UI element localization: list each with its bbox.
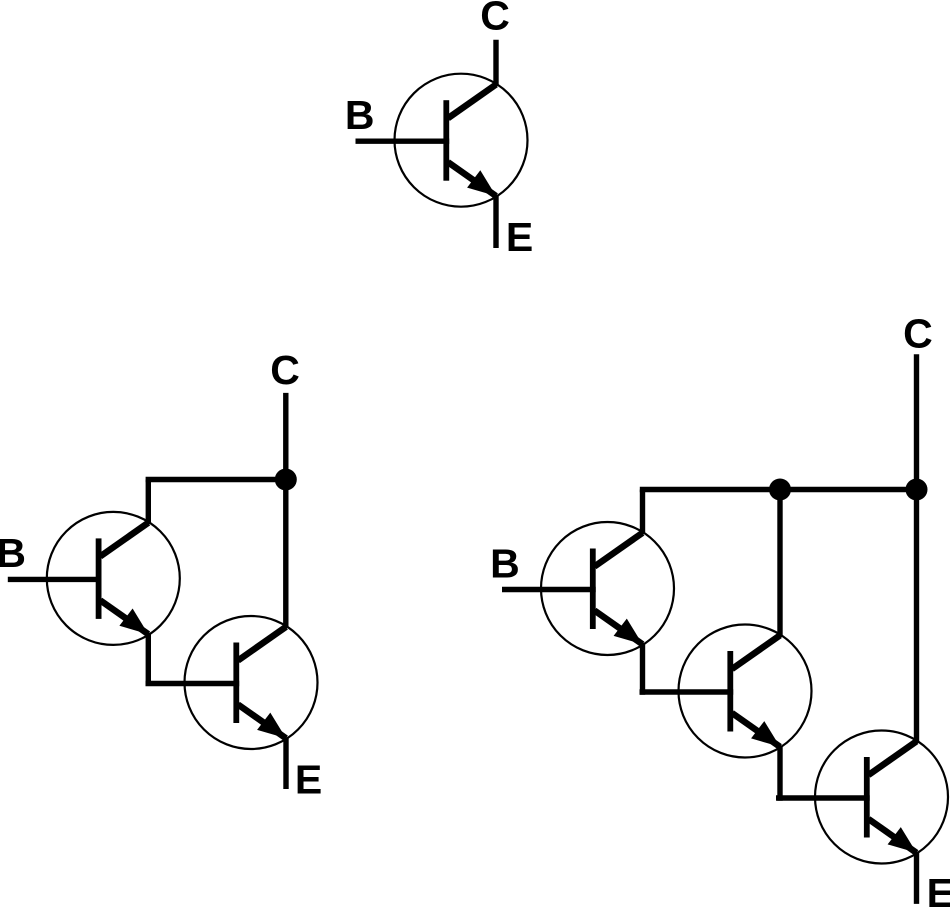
junction dot triple collector node right bbox=[906, 479, 928, 501]
svg-text:E: E bbox=[295, 756, 322, 802]
svg-text:C: C bbox=[270, 347, 300, 393]
wire triple collector lead from C bbox=[914, 354, 919, 489]
svg-text:C: C bbox=[903, 311, 933, 357]
transistor Q1 (single NPN) bbox=[356, 74, 528, 207]
svg-text:B: B bbox=[0, 530, 26, 576]
transistor Q5 (triple Darlington, middle) bbox=[640, 625, 812, 758]
svg-text:E: E bbox=[927, 870, 950, 907]
svg-text:E: E bbox=[506, 214, 533, 260]
svg-text:C: C bbox=[480, 0, 510, 38]
wire Q1 emitter lead bbox=[493, 195, 498, 248]
wire Q5 collector riser bbox=[777, 490, 782, 638]
transistor Q3 (Darlington pair, output) bbox=[146, 616, 318, 749]
junction dot Darlington collector node bbox=[275, 469, 297, 491]
wire Darlington collector lead from C bbox=[283, 393, 288, 480]
wire Q2 emitter to Q3 base bbox=[146, 633, 151, 685]
svg-text:B: B bbox=[490, 541, 520, 587]
wire Q4 collector riser bbox=[640, 490, 645, 535]
wire Q6 collector riser bbox=[914, 490, 919, 744]
wire Q5 emitter to Q6 base bbox=[777, 746, 782, 801]
wire triple collector bus horizontal bbox=[640, 487, 917, 492]
wire Q1 collector lead bbox=[493, 40, 498, 86]
wire Darlington emitter lead bbox=[283, 738, 288, 790]
transistor Q6 (triple Darlington, output) bbox=[776, 731, 948, 864]
junction dot triple collector node left bbox=[769, 479, 791, 501]
wire Q2 collector riser bbox=[146, 480, 151, 525]
svg-text:B: B bbox=[345, 92, 375, 138]
wire Q3 collector riser bbox=[283, 480, 288, 629]
transistor Q4 (triple Darlington, input) bbox=[502, 522, 674, 655]
transistor Q2 (Darlington pair, input) bbox=[8, 512, 180, 645]
wire Darlington collector bus horizontal bbox=[146, 477, 286, 482]
wire triple emitter lead bbox=[914, 852, 919, 904]
wire Q4 emitter to Q5 base bbox=[640, 643, 645, 695]
